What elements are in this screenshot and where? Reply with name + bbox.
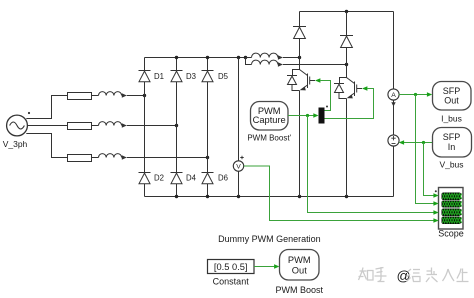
wire SFP In junction to scope input 1 (green) xyxy=(424,143,434,196)
wire PWM Capture to demux (green) xyxy=(288,115,314,117)
wire DC midpoint to voltage measurement xyxy=(238,58,240,197)
diode D1 xyxy=(139,71,151,82)
wire demux out2 to IGBT2 gate (green) xyxy=(325,89,374,119)
arrow into PWM Out xyxy=(274,264,279,269)
svg-text:Capture: Capture xyxy=(253,115,286,125)
wire converter leg 1 lower xyxy=(299,91,301,197)
inductor Lboost1 xyxy=(246,53,300,60)
node bottom bus junctions xyxy=(175,195,348,198)
svg-text:Constant: Constant xyxy=(213,276,250,286)
svg-text:SFP: SFP xyxy=(443,132,461,142)
wire rectifier bottom bus xyxy=(145,196,394,198)
svg-text:Scope: Scope xyxy=(438,229,464,239)
arrow scope input 1 xyxy=(433,193,438,198)
voltage measurement V1 xyxy=(233,156,243,171)
arrow current direction xyxy=(391,102,395,106)
svg-text:D2: D2 xyxy=(154,174,164,183)
wire rectifier leg 2 xyxy=(176,58,178,197)
svg-text:Out: Out xyxy=(292,265,307,275)
block PWM Out xyxy=(280,250,320,281)
svg-text:In: In xyxy=(448,142,456,152)
svg-text:PWM: PWM xyxy=(288,255,311,265)
wire A junction to scope input 2 (green) xyxy=(416,95,434,204)
wire converter leg 2 upper xyxy=(346,12,348,78)
svg-text:Dummy PWM Generation: Dummy PWM Generation xyxy=(218,234,321,244)
current measurement A1 xyxy=(388,89,399,100)
wire demux junction to scope input 3 (green) xyxy=(308,116,434,213)
scope marker dot xyxy=(435,190,437,192)
wire A measurement to SFP Out (green) xyxy=(399,94,427,96)
inductor L1 xyxy=(92,92,145,98)
node top bus junctions xyxy=(175,56,247,59)
node Lboost2 to leg2 xyxy=(345,63,348,66)
controlled source +- xyxy=(388,135,399,146)
wire DC rail to current measurement xyxy=(393,12,395,197)
svg-text:Out: Out xyxy=(444,96,459,106)
resistor R1 xyxy=(68,93,92,100)
transistor IGBT1 xyxy=(287,70,315,91)
svg-text:V_3ph: V_3ph xyxy=(3,139,28,149)
block SFP In xyxy=(433,128,472,158)
svg-text:D3: D3 xyxy=(186,72,196,81)
wire rectifier leg 3 xyxy=(207,58,209,197)
svg-text:D4: D4 xyxy=(186,174,197,183)
wire converter leg 1 upper xyxy=(299,12,301,70)
wire rectifier top bus xyxy=(145,57,246,59)
wire phase B from source xyxy=(27,125,67,127)
wire converter top rail xyxy=(300,11,394,13)
diode D2 xyxy=(139,173,151,184)
arrow into IGBT1 gate xyxy=(315,78,320,83)
source V_3ph xyxy=(7,112,31,136)
resistor R3 xyxy=(68,155,92,162)
arrow into SFP Out xyxy=(427,92,432,97)
inductor L2 xyxy=(92,122,177,128)
wire V measurement to scope input 4 (green) xyxy=(244,166,434,221)
block Constant xyxy=(208,260,255,274)
transistor IGBT2 xyxy=(334,78,362,99)
node green junction demux input xyxy=(306,114,309,117)
arrow into demux xyxy=(313,113,318,118)
svg-text:I_bus: I_bus xyxy=(441,114,462,124)
block PWM Capture xyxy=(251,102,289,131)
watermark zhihu xyxy=(359,267,387,282)
diode Dleg2 xyxy=(340,36,353,48)
svg-text:D1: D1 xyxy=(154,72,164,81)
svg-text:[0.5 0.5]: [0.5 0.5] xyxy=(214,262,248,272)
demux xyxy=(319,108,325,124)
arrow into IGBT2 gate xyxy=(362,86,367,91)
node green junction SFP In wire xyxy=(422,141,425,144)
inductor L3 xyxy=(92,154,208,160)
diode D6 xyxy=(202,173,214,184)
diode D3 xyxy=(171,71,183,82)
arrow scope input 3 xyxy=(433,210,438,215)
node phase B junction xyxy=(175,124,178,127)
arrow scope input 4 xyxy=(433,218,438,223)
inductor Lboost2 xyxy=(246,58,347,67)
wire Constant to PWM Out (green) xyxy=(254,266,274,268)
wire rectifier leg 1 xyxy=(144,58,146,197)
wire converter leg 2 lower xyxy=(346,99,348,197)
diode D4 xyxy=(171,173,183,184)
node top rail leg2 xyxy=(345,10,348,13)
svg-text:PWM Boost': PWM Boost' xyxy=(247,134,291,143)
demux marker xyxy=(326,106,328,108)
wire phase A from source xyxy=(26,96,67,119)
arrow scope input 2 xyxy=(433,201,438,206)
wire SFP In to controlled source (green) xyxy=(404,142,432,144)
svg-text:D5: D5 xyxy=(218,72,229,81)
node Lboost1 to leg1 xyxy=(298,56,301,59)
resistor R2 xyxy=(68,123,92,130)
svg-text:V_bus: V_bus xyxy=(439,159,463,169)
wire phase C from source xyxy=(26,134,67,158)
block SFP Out xyxy=(433,82,472,111)
svg-text:SFP: SFP xyxy=(443,86,461,96)
svg-text:V: V xyxy=(236,164,241,171)
node phase C junction xyxy=(206,156,209,159)
node phase A junction xyxy=(143,94,146,97)
block Scope xyxy=(439,188,464,230)
node green junction A wire xyxy=(414,93,417,96)
wire demux out1 to IGBT1 gate (green) xyxy=(321,81,331,111)
arrow into controlled source xyxy=(399,140,404,145)
diode D5 xyxy=(202,71,214,82)
svg-text:D6: D6 xyxy=(218,174,228,183)
diode Dleg1 xyxy=(293,27,306,39)
svg-text:PWM Boost: PWM Boost xyxy=(276,285,324,295)
svg-text:A: A xyxy=(391,92,396,99)
